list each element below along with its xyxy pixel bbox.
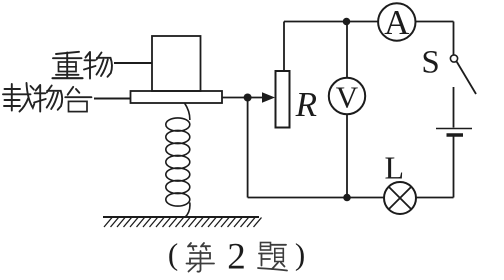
svg-text:2: 2	[227, 237, 246, 278]
svg-text:R: R	[295, 85, 317, 124]
svg-text:(: (	[168, 237, 178, 272]
svg-text:S: S	[421, 45, 439, 81]
svg-text:L: L	[385, 149, 405, 185]
svg-text:A: A	[384, 3, 410, 42]
svg-text:): )	[295, 237, 305, 272]
svg-text:V: V	[336, 79, 359, 114]
